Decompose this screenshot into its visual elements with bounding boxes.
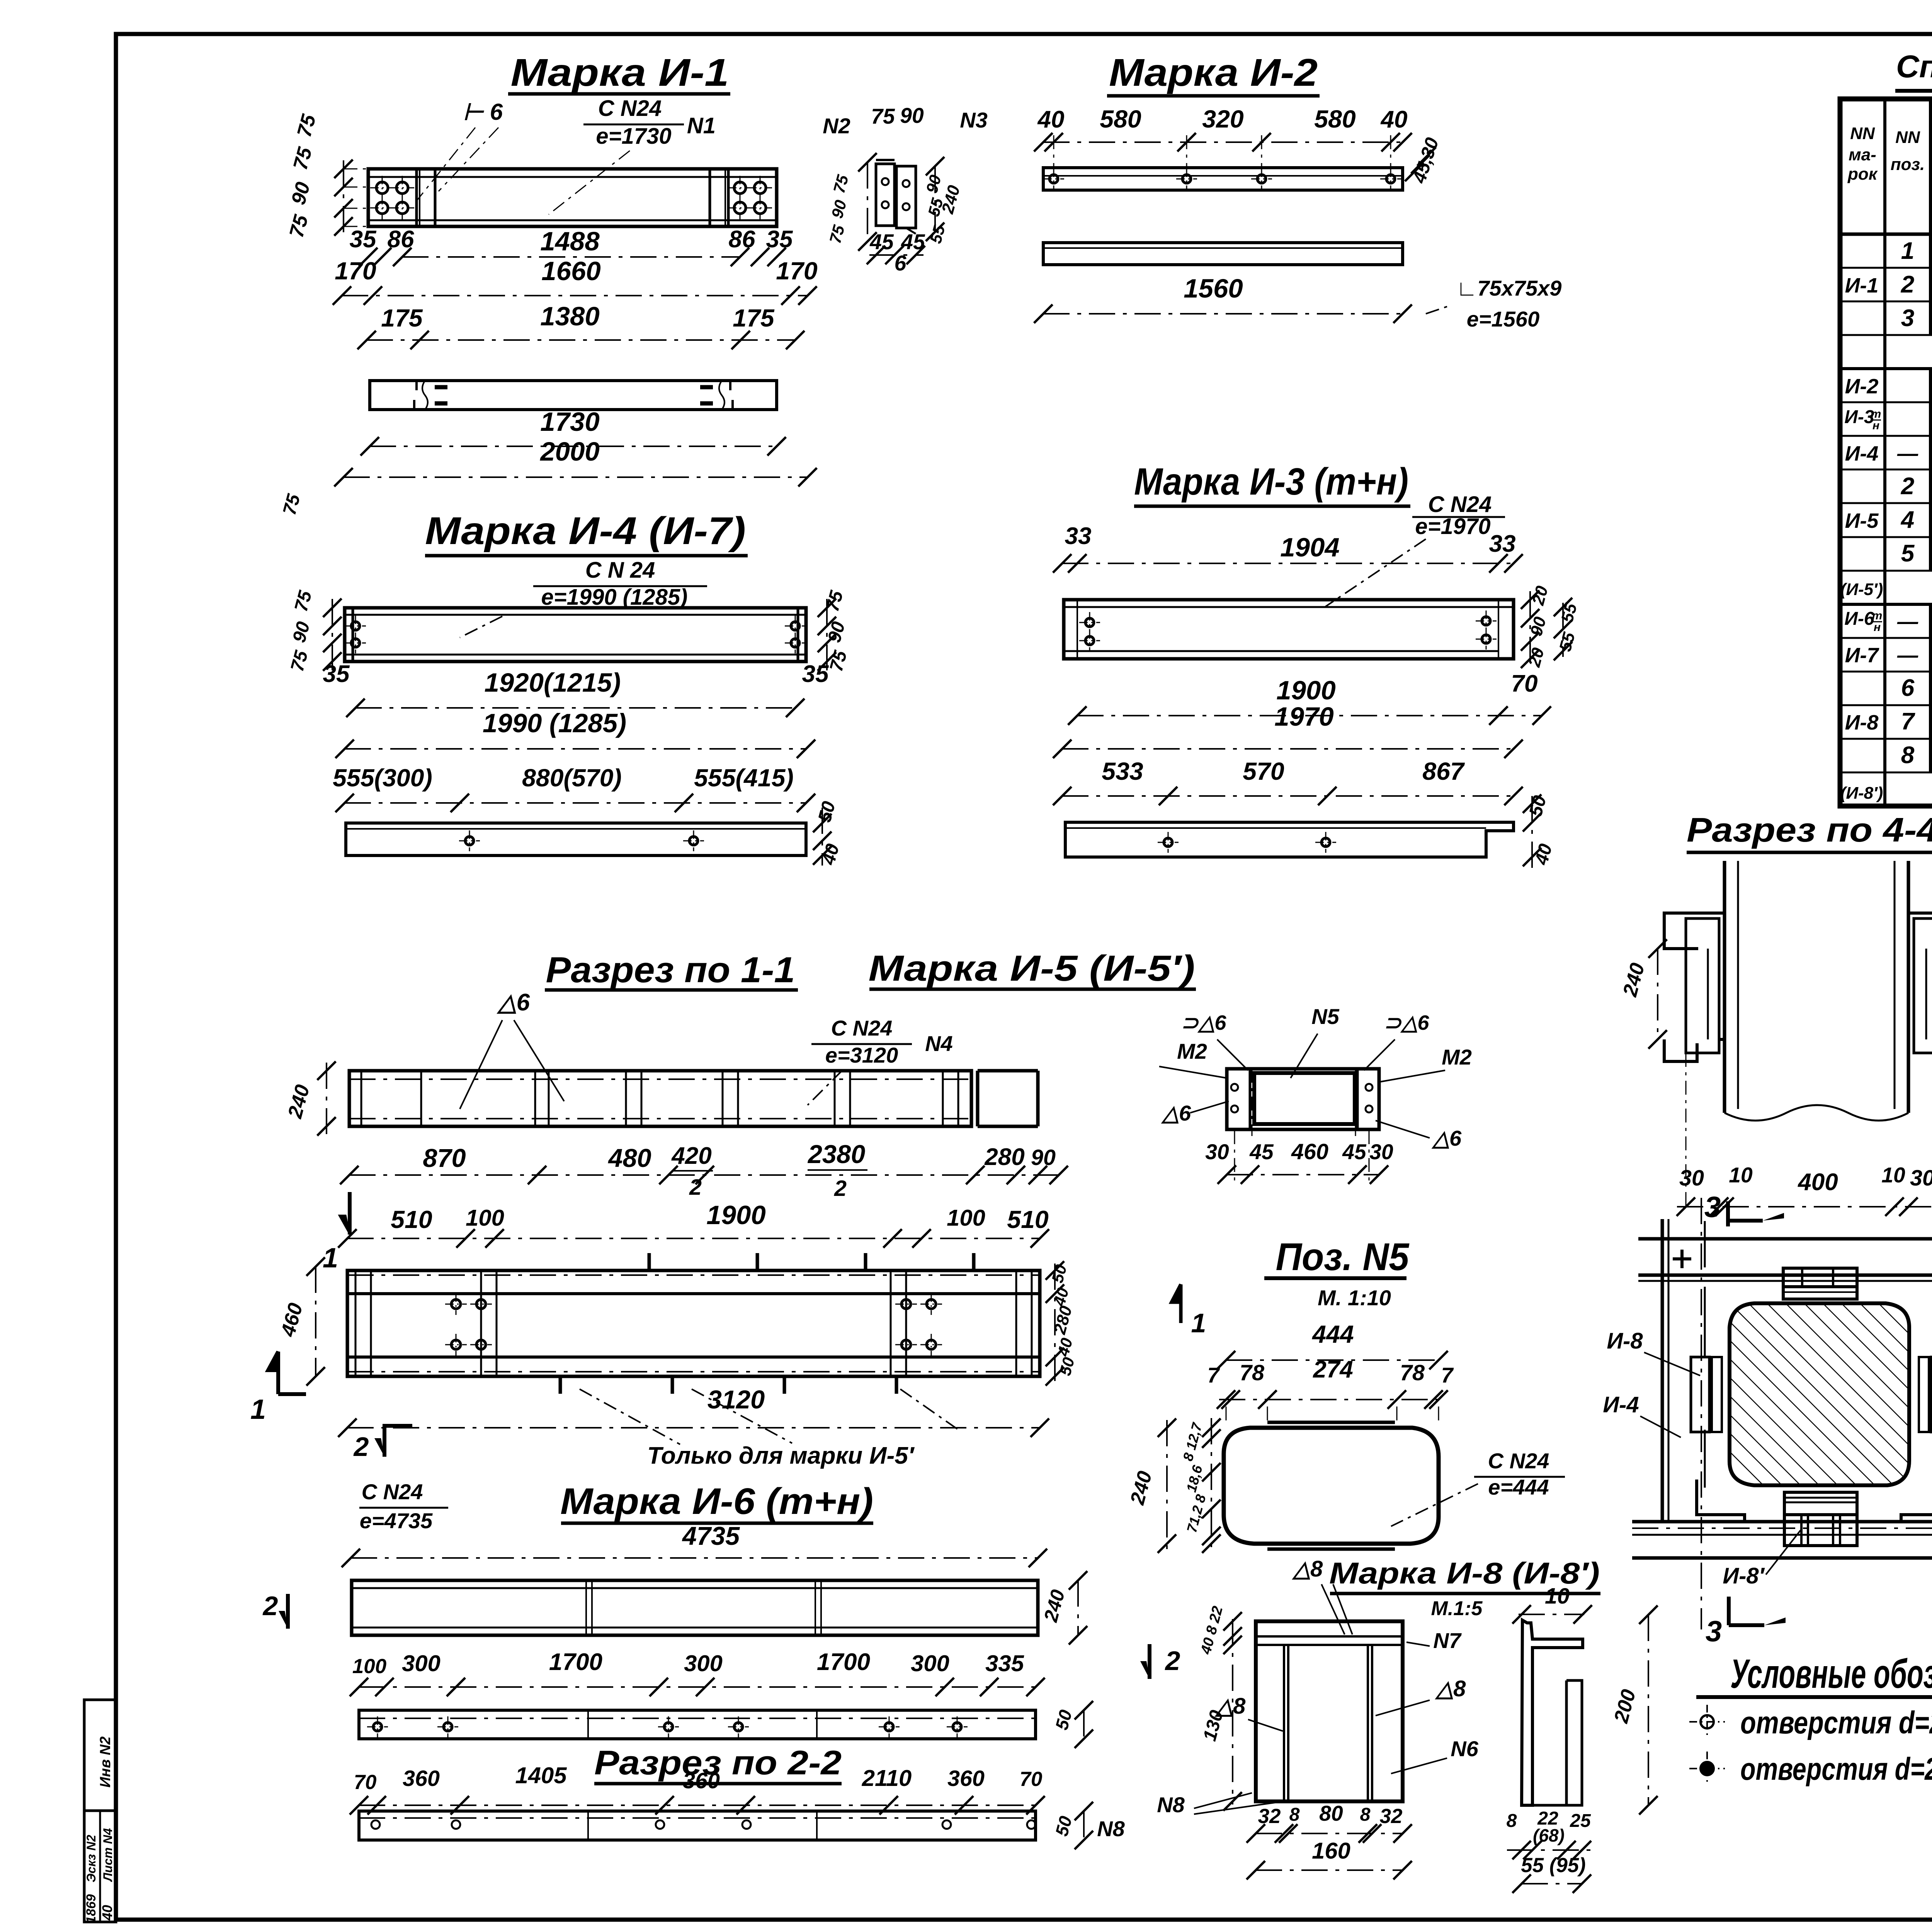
svg-text:10: 10 — [1881, 1163, 1905, 1187]
svg-text:△8: △8 — [1435, 1676, 1466, 1701]
svg-text:рок: рок — [1847, 165, 1878, 184]
svg-text:510: 510 — [1007, 1206, 1049, 1233]
svg-text:444: 444 — [1311, 1320, 1354, 1348]
hook mark top — [636, 1253, 659, 1270]
svg-text:Только для марки И-5′: Только для марки И-5′ — [647, 1442, 915, 1469]
svg-text:7: 7 — [1901, 708, 1915, 735]
svg-text:Марка И-5 (И-5′): Марка И-5 (И-5′) — [869, 948, 1195, 988]
svg-text:70: 70 — [354, 1771, 377, 1794]
plan holes — [451, 1299, 461, 1309]
И-6 beam elevation — [352, 1580, 1038, 1635]
svg-text:80: 80 — [1319, 1801, 1343, 1825]
section mark 3 bottom — [1727, 1597, 1731, 1625]
node plan: top clamp И-8 — [1783, 1268, 1857, 1287]
svg-text:33: 33 — [1489, 531, 1515, 557]
Разрез 2-2 strip — [359, 1811, 1036, 1840]
svg-text:Марка И-6 (т+н): Марка И-6 (т+н) — [560, 1481, 873, 1522]
dimension 75 90 75 (left of И-1) — [344, 168, 368, 170]
svg-text:Марка И-1: Марка И-1 — [511, 51, 729, 94]
bolt holes И-1 right — [734, 182, 746, 194]
svg-text:35: 35 — [766, 226, 793, 253]
spec table frame — [1840, 99, 1932, 806]
svg-text:1970: 1970 — [1274, 702, 1334, 731]
svg-text:NN: NN — [1850, 124, 1875, 143]
svg-text:Эскз N2: Эскз N2 — [84, 1835, 98, 1882]
svg-text:1900: 1900 — [1276, 675, 1336, 705]
svg-text:32: 32 — [1258, 1805, 1281, 1828]
svg-text:—: — — [1897, 644, 1918, 667]
svg-text:45: 45 — [1249, 1140, 1274, 1164]
svg-text:поз.: поз. — [1891, 155, 1925, 174]
svg-text:1700: 1700 — [549, 1649, 602, 1675]
svg-text:С N24: С N24 — [598, 96, 662, 121]
svg-text:⊃△6: ⊃△6 — [1181, 1011, 1227, 1034]
svg-text:510: 510 — [391, 1206, 432, 1233]
svg-text:35: 35 — [802, 661, 829, 687]
svg-text:И-4: И-4 — [1845, 442, 1879, 465]
svg-text:Спецификация металла ВМ Ст.3 Г: Спецификация металла ВМ Ст.3 ГОСТ 380-60 — [1896, 49, 1932, 84]
svg-text:100: 100 — [352, 1655, 386, 1678]
node plan: pile square hatched — [1730, 1303, 1909, 1485]
svg-text:78: 78 — [1400, 1361, 1425, 1385]
legend hole d=28 — [1701, 1762, 1714, 1775]
angle И-2 elevation — [1043, 168, 1403, 190]
И-4 plan view — [346, 823, 806, 855]
svg-text:т: т — [1872, 609, 1883, 622]
svg-text:И-2: И-2 — [1845, 375, 1879, 398]
svg-text:н: н — [1872, 419, 1879, 432]
svg-text:100: 100 — [947, 1205, 985, 1231]
svg-text:М2: М2 — [1177, 1039, 1207, 1063]
svg-text:Поз. N5: Поз. N5 — [1276, 1235, 1410, 1279]
svg-text:т: т — [1871, 408, 1881, 420]
svg-text:533: 533 — [1102, 757, 1143, 785]
svg-text:e=1730: e=1730 — [596, 124, 671, 149]
svg-text:Марка И-3 (т+н): Марка И-3 (т+н) — [1134, 460, 1408, 503]
svg-text:870: 870 — [423, 1144, 466, 1173]
beam И-1 elevation — [368, 169, 777, 226]
holes И-4 — [351, 622, 360, 630]
Поз N5 diaphragm shape — [1224, 1428, 1439, 1544]
svg-text:33: 33 — [1065, 523, 1091, 549]
Разрез 4-4 right clamp — [1908, 913, 1932, 949]
svg-text:e=3120: e=3120 — [825, 1043, 898, 1067]
И-2 plan view — [1043, 243, 1403, 265]
hook mark top — [744, 1253, 767, 1270]
svg-text:—: — — [1897, 442, 1918, 465]
node plan: bottom beam И-1 — [1632, 1520, 1932, 1524]
holes И-2 — [1049, 175, 1058, 183]
svg-text:7: 7 — [1441, 1363, 1454, 1387]
svg-text:ма-: ма- — [1849, 145, 1876, 164]
svg-text:6: 6 — [1901, 675, 1915, 701]
holes И-3 — [1085, 618, 1094, 627]
svg-text:8: 8 — [1901, 742, 1915, 769]
svg-text:78: 78 — [1240, 1361, 1264, 1385]
svg-text:32: 32 — [1380, 1805, 1403, 1828]
svg-text:280: 280 — [984, 1144, 1025, 1170]
svg-text:320: 320 — [1202, 105, 1244, 133]
svg-text:30: 30 — [1910, 1166, 1932, 1190]
svg-text:360: 360 — [403, 1766, 440, 1791]
svg-text:NN: NN — [1895, 128, 1920, 147]
svg-text:400: 400 — [1797, 1169, 1838, 1196]
svg-text:2: 2 — [1901, 473, 1915, 500]
svg-text:Условные обозначения: Условные обозначения — [1730, 1651, 1932, 1697]
svg-text:И-8: И-8 — [1607, 1328, 1643, 1354]
svg-text:Разрез по 1-1: Разрез по 1-1 — [546, 949, 795, 990]
svg-text:1904: 1904 — [1280, 532, 1340, 562]
svg-text:300: 300 — [684, 1650, 723, 1676]
svg-text:555(415): 555(415) — [694, 764, 794, 792]
svg-text:отверстия d=28мм: отверстия d=28мм — [1740, 1752, 1932, 1787]
section mark 2 (left) — [286, 1594, 290, 1629]
svg-text:86: 86 — [728, 226, 755, 253]
svg-text:И-4: И-4 — [1603, 1392, 1639, 1417]
svg-text:580: 580 — [1100, 105, 1141, 133]
И-1 bottom flange (plan view) — [370, 381, 777, 410]
svg-text:580: 580 — [1314, 105, 1356, 133]
svg-text:4: 4 — [1900, 507, 1915, 533]
svg-text:7: 7 — [1207, 1363, 1220, 1387]
svg-text:N7: N7 — [1433, 1628, 1462, 1653]
section mark 3 top — [1726, 1201, 1730, 1226]
svg-text:И-7: И-7 — [1845, 644, 1880, 667]
svg-text:e=1560: e=1560 — [1467, 307, 1539, 331]
svg-text:N5: N5 — [1311, 1004, 1339, 1029]
svg-text:△6: △6 — [497, 989, 530, 1016]
svg-text:570: 570 — [1243, 757, 1284, 785]
svg-text:N8: N8 — [1097, 1816, 1125, 1841]
hook mark bottom — [771, 1376, 794, 1394]
svg-text:1405: 1405 — [515, 1762, 567, 1788]
svg-text:1900: 1900 — [706, 1200, 766, 1230]
svg-text:40: 40 — [1037, 106, 1064, 133]
svg-text:10: 10 — [1545, 1584, 1570, 1609]
svg-text:360: 360 — [683, 1769, 720, 1793]
beam И-3 elevation — [1064, 600, 1514, 659]
svg-text:2: 2 — [1165, 1646, 1180, 1676]
svg-text:С N24: С N24 — [1428, 492, 1492, 517]
svg-text:45: 45 — [1342, 1140, 1367, 1164]
svg-text:—: — — [1897, 610, 1918, 633]
node plan: side clamps — [1691, 1357, 1709, 1432]
svg-text:2000: 2000 — [539, 437, 600, 466]
svg-text:М.1:5: М.1:5 — [1431, 1597, 1483, 1620]
svg-text:△8: △8 — [1292, 1556, 1323, 1582]
svg-text:e=444: e=444 — [1488, 1475, 1549, 1499]
svg-text:867: 867 — [1422, 757, 1465, 785]
node plan: bottom clamp И-8р — [1784, 1492, 1857, 1515]
svg-text:⊃△6: ⊃△6 — [1384, 1011, 1430, 1034]
svg-text:10: 10 — [1729, 1163, 1753, 1187]
svg-text:Разрез по 4-4: Разрез по 4-4 — [1687, 811, 1932, 849]
svg-text:175: 175 — [381, 304, 423, 332]
beam И-4 elevation — [345, 608, 806, 662]
svg-text:e=4735: e=4735 — [360, 1509, 433, 1533]
svg-text:Лист N4: Лист N4 — [101, 1828, 115, 1882]
svg-text:отверстия d=23 мм: отверстия d=23 мм — [1740, 1705, 1932, 1740]
registration table bottom-left — [84, 1700, 116, 1922]
И-3 plan view — [1065, 822, 1514, 857]
svg-text:△6: △6 — [1431, 1126, 1462, 1150]
И-5 plan view — [347, 1270, 1040, 1376]
svg-text:3120: 3120 — [707, 1386, 765, 1414]
hook mark bottom — [883, 1376, 906, 1394]
hook mark bottom — [547, 1376, 570, 1394]
svg-text:⊢ 6: ⊢ 6 — [463, 99, 503, 125]
svg-text:460: 460 — [1291, 1139, 1328, 1164]
svg-text:N3: N3 — [960, 108, 988, 132]
svg-text:N4: N4 — [925, 1031, 953, 1056]
svg-text:360: 360 — [947, 1766, 985, 1791]
svg-text:90: 90 — [900, 104, 924, 128]
svg-text:М2: М2 — [1442, 1045, 1472, 1069]
hook mark top — [960, 1253, 983, 1270]
svg-text:И-3: И-3 — [1844, 407, 1874, 427]
mark 2 top (near И-6 label) — [384, 1426, 412, 1457]
svg-text:∟75x75x9: ∟75x75x9 — [1456, 276, 1562, 300]
svg-text:Инв N2: Инв N2 — [97, 1736, 114, 1787]
svg-text:70: 70 — [1511, 670, 1537, 697]
svg-text:2380: 2380 — [807, 1140, 865, 1169]
svg-text:(68): (68) — [1533, 1825, 1565, 1845]
svg-text:2: 2 — [834, 1176, 847, 1201]
svg-text:(И-5′): (И-5′) — [1840, 580, 1883, 599]
svg-text:3: 3 — [1706, 1615, 1722, 1648]
svg-text:8: 8 — [1289, 1804, 1300, 1825]
svg-text:75: 75 — [871, 104, 895, 128]
svg-text:И-6: И-6 — [1844, 609, 1874, 629]
svg-text:70: 70 — [1020, 1768, 1043, 1791]
svg-text:2: 2 — [1901, 271, 1915, 298]
svg-text:40: 40 — [1380, 106, 1407, 133]
svg-text:274: 274 — [1313, 1356, 1353, 1383]
svg-text:1: 1 — [1901, 238, 1915, 264]
svg-text:35: 35 — [323, 661, 350, 687]
svg-text:90: 90 — [1031, 1145, 1056, 1170]
И-6 plan strip — [359, 1710, 1036, 1739]
svg-text:100: 100 — [466, 1205, 504, 1231]
svg-text:1869: 1869 — [84, 1894, 99, 1923]
svg-text:4735: 4735 — [682, 1522, 740, 1551]
svg-text:5: 5 — [1901, 540, 1915, 567]
svg-text:170: 170 — [776, 257, 818, 285]
svg-text:1730: 1730 — [540, 407, 600, 437]
svg-text:N2: N2 — [823, 114, 850, 138]
svg-text:880(570): 880(570) — [522, 764, 622, 792]
svg-text:1: 1 — [1191, 1308, 1206, 1338]
svg-text:1380: 1380 — [540, 301, 600, 331]
legend hole d=23 — [1701, 1715, 1714, 1728]
svg-text:30: 30 — [1205, 1140, 1229, 1164]
svg-text:Марка И-4 (И-7): Марка И-4 (И-7) — [425, 509, 746, 553]
svg-text:40: 40 — [99, 1905, 115, 1921]
svg-text:1920(1215): 1920(1215) — [485, 668, 621, 697]
svg-text:н: н — [1874, 621, 1881, 634]
svg-text:С N24: С N24 — [362, 1480, 423, 1504]
И-5 elevation bar — [349, 1071, 971, 1126]
svg-text:Марка И-2: Марка И-2 — [1109, 51, 1318, 94]
svg-text:55 (95): 55 (95) — [1521, 1854, 1586, 1877]
И-8 side view — [1522, 1620, 1583, 1805]
svg-text:8: 8 — [1507, 1810, 1517, 1831]
node plan: vertical guide channels — [1661, 1219, 1664, 1523]
svg-text:И-5: И-5 — [1845, 509, 1879, 532]
И-5 end view detail — [1227, 1069, 1379, 1129]
svg-text:480: 480 — [607, 1144, 651, 1173]
hook mark bottom — [659, 1376, 682, 1394]
svg-text:М. 1:10: М. 1:10 — [1318, 1286, 1391, 1310]
svg-text:1990 (1285): 1990 (1285) — [483, 708, 626, 738]
svg-text:1: 1 — [323, 1243, 338, 1274]
svg-text:N8: N8 — [1157, 1793, 1185, 1817]
Разрез 4-4 pile column — [1723, 861, 1726, 1113]
svg-text:160: 160 — [1312, 1838, 1350, 1864]
svg-text:N6: N6 — [1451, 1736, 1478, 1761]
И-8 front view — [1256, 1621, 1403, 1801]
svg-text:300: 300 — [911, 1650, 949, 1676]
svg-text:30: 30 — [1369, 1140, 1393, 1164]
svg-text:35: 35 — [349, 226, 377, 253]
svg-text:25: 25 — [1570, 1810, 1591, 1831]
svg-text:555(300): 555(300) — [333, 764, 432, 792]
svg-text:△6: △6 — [1161, 1101, 1191, 1125]
section mark 1 right — [1172, 1284, 1181, 1323]
svg-text:175: 175 — [733, 304, 775, 332]
svg-text:2: 2 — [262, 1591, 278, 1621]
svg-text:2110: 2110 — [862, 1765, 912, 1791]
section marks 1 — [348, 1192, 352, 1235]
bolt holes И-1 left — [376, 182, 388, 194]
svg-text:1700: 1700 — [817, 1649, 870, 1675]
svg-text:N1: N1 — [687, 113, 716, 138]
svg-text:С N24: С N24 — [831, 1016, 893, 1040]
svg-text:3: 3 — [1704, 1191, 1721, 1224]
svg-text:1488: 1488 — [540, 226, 600, 256]
node plan: bottom angle brackets — [1697, 1480, 1745, 1523]
svg-text:1560: 1560 — [1184, 274, 1243, 303]
svg-text:335: 335 — [985, 1650, 1024, 1676]
svg-text:30: 30 — [1679, 1166, 1704, 1190]
svg-text:1: 1 — [250, 1394, 266, 1425]
svg-text:300: 300 — [402, 1650, 440, 1676]
svg-text:И-8: И-8 — [1845, 711, 1879, 734]
svg-text:3: 3 — [1901, 305, 1915, 332]
svg-text:e=1990 (1285): e=1990 (1285) — [541, 585, 688, 610]
hook mark top — [852, 1253, 875, 1270]
svg-text:С N 24: С N 24 — [585, 558, 655, 583]
node plan: top beam И-2 — [1638, 1237, 1932, 1241]
svg-text:170: 170 — [335, 257, 376, 285]
svg-text:И-8′: И-8′ — [1723, 1563, 1765, 1588]
svg-text:8: 8 — [1360, 1804, 1371, 1825]
Разрез 4-4 left clamp — [1664, 913, 1725, 949]
svg-text:1660: 1660 — [541, 256, 601, 286]
svg-text:(И-8′): (И-8′) — [1840, 784, 1883, 803]
svg-text:С N24: С N24 — [1488, 1449, 1549, 1473]
svg-text:И-1: И-1 — [1845, 274, 1879, 297]
svg-text:2: 2 — [353, 1432, 369, 1462]
